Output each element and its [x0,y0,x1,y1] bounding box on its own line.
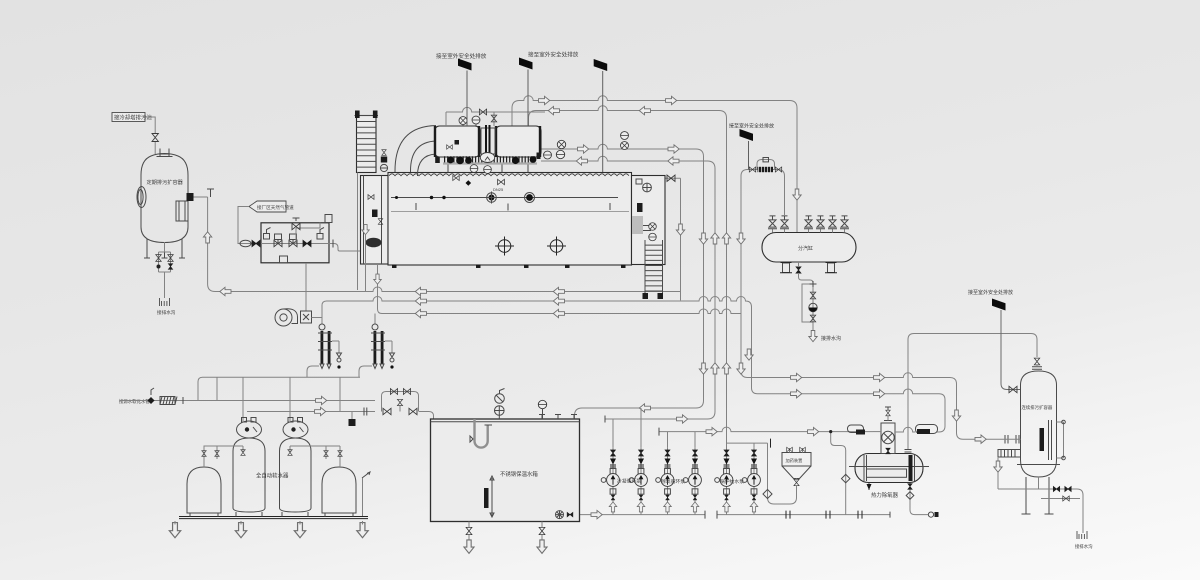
vessel V1: periodic blowdown expansion tank [141,154,188,243]
wire: boiler left casing edge to ground [357,173,359,291]
label box: cooling water source [112,113,145,122]
arrow down to drain [809,331,817,342]
strainer on raw water line [160,397,175,405]
softener control head 1 [237,421,262,438]
boiler water level line with tube dots [391,197,618,199]
safety flag 3b pole [748,141,750,170]
safety flag 2 [519,58,533,70]
inner duct arch [418,154,437,176]
arrows right y=393.7 [791,390,802,398]
svg-text:分汽缸: 分汽缸 [798,245,813,252]
instrument drop with black fitting right of softener [351,412,353,420]
DN25 vent valve on shell top [498,179,505,184]
svg-text:接至室外安全处排放: 接至室外安全处排放 [528,51,579,59]
wire: second drain line from vessel legs [1041,495,1083,499]
bypass manifold flanges [364,408,367,416]
vessel V1 top flange [157,149,173,157]
svg-text:接源水软化水管: 接源水软化水管 [119,398,150,405]
distributor outlet valves with stems [773,229,845,233]
svg-text:接厂区天然气管道: 接厂区天然气管道 [257,204,294,211]
arrow left y=291.5 mid2 [553,287,564,295]
flow meters right of drum [557,140,565,148]
salt tank 2 [322,467,356,513]
drain pit symbol [1077,531,1087,539]
wire: end bar of y=431.6 header [658,428,660,436]
svg-text:热力除氧器: 热力除氧器 [871,491,899,499]
burner supply flange [332,240,334,248]
pump P4 deaerator circulating pump B [683,447,701,514]
drain valve B [168,255,173,262]
dosing outlet valve [794,479,799,485]
pressure gauge diamond [147,397,154,404]
safety flag 2 pole [527,70,529,127]
arrow up pump P1 suction [609,502,617,512]
tank outlet vortex instrument [556,511,564,519]
drain valve A [156,255,161,262]
fittings on drum right end [544,151,552,159]
arrow up pump P3 suction [664,502,672,512]
ground baseline under softener [179,517,368,519]
wire: boiler feed pump discharge header y=443.1 [727,442,768,444]
manhole left [498,240,511,253]
vessel V1 side manhole [137,187,146,208]
rear ladder feet [643,293,649,299]
wire: P4 discharge riser [694,432,696,448]
svg-text:锅炉给水泵: 锅炉给水泵 [720,478,744,485]
flash vessel internal downcomer [1049,420,1052,460]
boiler inner line [391,211,629,213]
wire: blowdown line y=313.5 from ejector 2 [375,309,741,322]
head top vent valve [887,416,889,421]
wire: softened water line y=411.5 to bypass [247,411,375,413]
wire: P3 discharge riser [667,432,669,448]
continuous blowdown flash vessel [1021,371,1057,477]
wire: deaerator feed header y=431.6 from pumps [659,427,873,432]
wire: distributor bottom drain [799,262,814,330]
rear smokebox [632,176,666,265]
arrow down x=741 lower [737,363,745,374]
arrow up pump P6 suction [750,502,758,512]
bypass loop valves [390,389,397,395]
chimney / economizer column with ladder rungs [357,116,377,173]
overflow U-pipe inside tank [475,419,488,448]
arrow left y=291.5 mid [415,287,426,295]
arrow up x=715 lower [711,363,719,374]
wire: fan box to blowdown line riser [312,317,323,319]
flash vessel mid inlet flanges [1005,435,1019,444]
wire: pump suction header right y=514.6 from deaerator [717,514,890,516]
bypass arch with gauge [757,160,775,170]
arrow left y=161 #2 [668,157,679,165]
tank drain 2 [541,522,543,542]
wire: ejector drain collection line y=377.2 [217,376,360,378]
flash vessel bottom tangent flange [1017,464,1060,466]
flash vessel low sparge nozzle (hatched) [998,450,1021,458]
bypass valve B [409,408,417,414]
resin tank 1 [233,438,265,512]
header tube row (dense ticks) [444,156,536,163]
flash vessel level gauge loop [1057,422,1064,458]
vessel V1 legs [144,239,185,258]
arrow left y=301 [415,297,426,305]
flag pole: flash vessel vent flag x=1001 down to vessel upper inlet [1001,310,1021,390]
SEC-SOFTENER [119,377,434,537]
pressure reducing assembly arch above distributor [741,170,785,217]
wire: P2 discharge riser [640,408,642,447]
arrow left y=408 tank return [639,404,650,412]
arrow right y=149 [578,145,589,153]
gauge tick marks [416,203,610,211]
arrow right y=419 [677,415,688,423]
brine valves [202,451,206,457]
wire: pump suction header left y=514.6 from water tank [556,514,705,516]
wire: end bar suction right [716,511,718,519]
arrow up blowdown riser to vessel [203,232,211,243]
manhole right [550,240,563,253]
chemical dosing unit box [782,453,811,467]
arrow left y=313.5 far [553,309,564,317]
arrow down on sparge drop [994,461,1002,472]
boiler front smokebox [361,176,389,265]
svg-text:全自动软水器: 全自动软水器 [256,472,289,480]
instrument square with flag, right [317,234,323,240]
safety flag 1 pole [466,71,468,127]
duct flange at drum [435,152,440,164]
pump P6 boiler feed pump B [742,447,760,514]
arrow right y=149 #2 [668,145,679,153]
svg-text:接至室外安全处排放: 接至室外安全处排放 [729,123,774,130]
vessel V1 right nozzle (black) [187,193,194,201]
small blowoff valve near left shell top [453,175,459,180]
arrow left y=313.5 [415,309,426,317]
wire: from label box to vessel top [145,117,155,154]
wire: periodic blowdown header y=291.5 from vessel riser [208,197,681,292]
sample cooler / ejector assembly 2 [359,322,395,377]
wire: blowdown line y=301 from ejector 1 to flash vessel via x=749 and y=393.7 to deaerator [322,297,945,432]
burner flame (dark ellipse) [366,238,382,248]
salt tank 1 [187,467,221,513]
wire: end bar of feed header [770,439,772,448]
svg-text:连续排污扩容器: 连续排污扩容器 [1022,404,1053,411]
SEC-DEAERATOR [848,407,938,499]
arrow up pump P4 suction [691,502,699,512]
bypass valve A [383,408,391,414]
wire: softened water into tank top [419,412,434,420]
downcomer stubs to boiler top [448,165,528,173]
SEC-PUMPS [601,408,862,519]
arrow down x=956.5 [952,410,960,421]
SEC-EJECTORS [217,320,395,377]
drain valves [1053,486,1059,491]
thermal deaerator vessel [855,454,923,483]
gauges under drum [470,165,478,173]
arrow right y=439.2 to flash vessel [975,435,986,443]
SEC-BOILER [355,111,666,314]
sample cooler / ejector assembly 1 [307,320,342,377]
valve on vessel inlet [152,134,158,142]
dosing inlet valves [790,448,803,453]
arrows right y=377.5 [791,373,802,381]
vent stub with cap [207,189,214,197]
drum mid connector with dark bars [481,128,495,154]
wire: recirculation branch from feed line to suction header [831,432,846,515]
wire: drops from collection line to softener heads [217,377,340,421]
wire: front bottom drain [365,235,367,292]
softener control head 2 [283,421,308,438]
arrow down on front drain [362,225,370,235]
node: boiler shell steam outlet junction [600,195,606,201]
flag label: plant natural gas supply (pentagon) [249,201,286,212]
flue duct elbow from drum down to boiler top [395,126,436,173]
arrow down x=680.5 [676,224,684,235]
rear instruments [643,183,652,192]
svg-text:定期排污扩容器: 定期排污扩容器 [147,178,184,186]
arrow right on softened line [315,407,326,415]
tank outlet valve (black) [567,512,573,517]
arrow left y=161 [576,157,587,165]
safety flag 3 (boiler shell vent) [594,59,608,71]
wire: main steam line boiler drum to steam header, y=100.5 [512,96,797,232]
wire: flash vessel bottom drain line [998,477,1083,533]
wire: deaerator bottom outlet drop x=910 [910,483,928,515]
svg-text:接至室外安全处排放: 接至室外安全处排放 [968,289,1013,296]
wire: bottom drain with twin valve loop [159,242,171,298]
arrow right y=100.5 #2 [666,96,677,104]
SEC-LEFTVESSEL [112,113,214,317]
wire: steam takeoff to deaerator riser, y=149 then down x=703.5 to tank return y=408 [541,144,704,419]
pump P2 condensate circulating pump B [629,447,647,514]
wire: gas train main line [261,243,329,245]
blowdown valve 2 [810,315,815,322]
svg-text:加药装置: 加药装置 [786,457,803,464]
wire: brine manifold [204,446,340,467]
wire: dosing line to feed header [768,443,797,504]
head bottom fitting [886,448,890,454]
wire: rear smokebox vent stub with valve, down x=680.5 [665,178,681,300]
arrow down x=749 [745,349,753,360]
wire: deaerator safety riser top nozzle [905,450,912,453]
steam trap (half black circle) [809,303,817,311]
black fitting on drum left [455,140,460,145]
deaerator spray head column [881,423,895,454]
fan: combustion air blower [275,309,292,326]
tank internal level gauge [491,478,493,517]
steam drum left section [435,126,481,157]
SEC-FENQIGANG [729,123,856,343]
arrow right y=100.5 [539,96,550,104]
gas train enclosure box [261,223,329,263]
drum bottom center manway ellipse [480,153,494,163]
tank level gauge instrument [538,400,546,408]
arrow right tank outlet y=514.6 [591,510,602,518]
svg-text:接排水沟: 接排水沟 [1075,543,1093,550]
SEC-GASTRAIN [238,201,362,326]
node: open end cap [928,512,933,517]
fan control box [301,311,312,323]
arrow left y=110.6 [548,106,559,114]
boiler bottom feet [392,265,397,269]
svg-text:接排水沟: 接排水沟 [157,309,176,316]
wire: pilot line from box bottom to fan box [305,263,307,311]
arrows up risers x=703.5,715,726.5,738.5 [699,233,707,244]
continuous blowdown valve above drums [446,107,545,126]
riser globe valve [399,405,401,412]
svg-text:接排水沟: 接排水沟 [821,335,841,342]
wire: feedwater line y=161 down x=715 to pump header y=419 [541,156,715,419]
arrow left y=291.5 end [220,287,231,295]
drain trap dot [157,265,161,269]
suction header flanged valves [786,511,862,519]
right steam inlet box [916,425,938,434]
wire: P1 discharge riser [612,419,614,447]
dosing check (diamond) [763,489,772,498]
wire: gas to burner [329,244,362,252]
arrow down economizer drain [374,274,382,284]
tank legs to baseline [190,512,353,517]
distributor saddle supports [783,263,790,273]
pump P5 boiler feed pump A [715,447,733,514]
front gauge fittings [368,195,374,200]
svg-text:DN25: DN25 [493,187,504,192]
feedwater inlet fittings on front box top [382,150,386,156]
slope mark tag [362,472,370,478]
arrow up pump P5 suction [723,502,731,512]
gas train valve 3 (black) [303,240,311,246]
wire: gas inlet leader [238,207,261,244]
SEC-DRUM [395,51,628,177]
small box on train bottom edge [280,256,288,263]
wire: P6 discharge riser [753,443,755,447]
deaerator left end drain stub [866,479,872,491]
SEC-PIPES [208,71,1037,519]
flash vessel legs [1022,477,1054,514]
gas train valve 1 with actuator [274,240,282,246]
boiler main shell [388,173,632,266]
SEC-TANK [431,389,580,554]
blowdown valve 1 [810,292,815,299]
valve on rear box stub [667,175,675,181]
gauge pair near boiler rear top [621,132,629,140]
wire: economizer drain drop x=377.5 into blowdown line [378,265,383,314]
arrows right y=431.6 [706,427,717,435]
arrow up x=726.5 lower [722,363,730,374]
wire: safety vent header y=333.5 deaerator riser to flash vessel valve [908,334,1037,450]
resin tank 2 [280,438,312,512]
backwash arrows to floor drain [169,523,180,538]
instrument box above train [325,215,332,223]
tank safety relief instrument [495,394,505,404]
wire: raw water line y=400.5 [120,400,375,402]
arrow left y=302 far [553,297,564,305]
instrument square with flag, left [264,234,270,240]
svg-text:接至室外安全处排放: 接至室外安全处排放 [436,52,487,60]
flash vessel top nozzle and valve [1032,367,1042,370]
drain pit symbol [160,298,170,306]
stainless steel insulated water tank [431,419,580,522]
wire: safety vent pole from boiler shell x=602.7 [602,71,604,199]
vessel V1 level gauge [176,201,188,221]
wire: feedwater line to economizer, y=110.6 [529,106,727,448]
header big fittings [447,157,454,164]
arrow up pump P2 suction [637,502,645,512]
safety flag 4 [992,299,1006,311]
drain valve (black) on drop [796,267,801,273]
svg-text:不锈钢保温水箱: 不锈钢保温水箱 [500,470,538,478]
wire: continuous blowdown y=377.5 from x=738.5 to flash vessel inlet y=439.2 [741,176,1003,439]
pump P1 condensate circulating pump A [601,447,619,514]
arrow down steam riser to distributor [793,189,801,200]
arrow left y=110.6 #2 [639,106,650,114]
flex connector [240,240,251,246]
gas vent valve on branch [296,223,320,244]
pump P3 deaerator circulating pump A [656,447,674,514]
SEC-FLASH [968,289,1093,550]
safety flag 3b [740,129,754,141]
boiler insulation wavy top [389,174,629,176]
rear flue gray block [632,216,643,234]
wire: nozzle to blowdown riser [194,196,208,198]
safety flag 1 [458,59,472,71]
wire: sparge drop to drain [997,453,999,489]
tank top nozzle caps [539,415,577,420]
dosing funnel [782,466,811,479]
valve on flash vessel upper inlet [1009,386,1017,392]
arrow down x=703.5 lower [699,363,707,374]
wire: end cap of y=419 header [604,416,606,423]
steam distributor vessel (fen qi gang) [762,233,856,263]
svg-text:除氧循环泵: 除氧循环泵 [661,478,685,485]
drain check (black) [168,264,172,270]
arrow right on raw water line [316,396,327,404]
steam drum right section [496,126,542,157]
rear ladder [645,240,663,296]
tank drain 1 [468,522,470,542]
cross tick [810,281,817,287]
gas train valve 2 with actuator [289,240,297,246]
left inlet instrument boxes [848,425,864,433]
svg-text:冷凝循环泵: 冷凝循环泵 [617,478,641,485]
bypass loop [382,392,419,412]
drum instruments (pressure gauges) [459,117,467,125]
gas inlet valve (black) [252,240,260,246]
